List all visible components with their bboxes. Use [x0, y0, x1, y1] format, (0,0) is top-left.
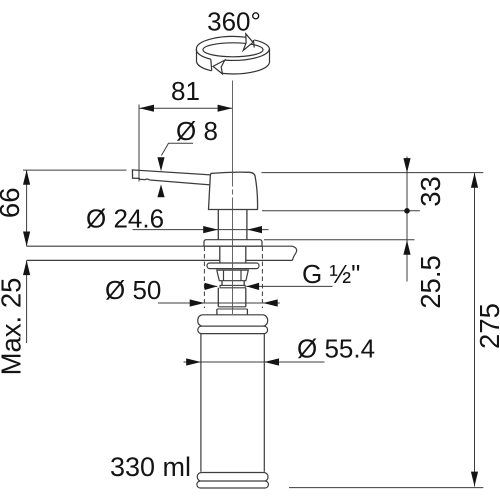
right reference lines — [262, 172, 484, 174]
dim 81: line + outward arrows — [139, 105, 232, 182]
dashed projection lines of flange dia 50 — [204, 247, 262, 309]
81 extension through spout — [138, 170, 140, 181]
svg-text:Ø 8: Ø 8 — [176, 116, 218, 146]
svg-text:81: 81 — [171, 76, 200, 106]
countertop lines with right break — [27, 245, 293, 247]
dim 25.5 arrow — [403, 240, 410, 255]
svg-text:275: 275 — [474, 303, 500, 349]
thread stubs — [222, 281, 244, 286]
svg-text:25.5: 25.5 — [415, 255, 446, 309]
svg-text:330 ml: 330 ml — [110, 452, 191, 482]
bottle body — [201, 334, 264, 472]
dim Max. 25 — [26, 260, 28, 343]
svg-text:Max. 25: Max. 25 — [0, 278, 27, 376]
svg-text:360°: 360° — [207, 7, 261, 37]
svg-text:G ½": G ½" — [302, 259, 360, 289]
dim 275 — [474, 173, 476, 487]
svg-text:66: 66 — [0, 188, 25, 219]
flange on counter — [204, 240, 262, 247]
dim 33 with dot — [406, 157, 408, 282]
bottle neck rings — [198, 315, 268, 326]
tube through counter — [220, 246, 246, 263]
svg-text:Ø 50: Ø 50 — [105, 275, 161, 305]
centerline — [232, 81, 234, 315]
head of dispenser — [209, 172, 258, 209]
lower tube to bottle — [218, 288, 246, 307]
svg-text:Ø 24.6: Ø 24.6 — [86, 204, 164, 234]
baseline bottom right — [289, 487, 483, 489]
bottle bottom rings — [197, 473, 268, 482]
svg-text:33: 33 — [415, 176, 446, 207]
svg-text:Ø 55.4: Ø 55.4 — [297, 334, 375, 364]
360 degree rotation ring — [196, 34, 269, 74]
nut — [217, 270, 249, 281]
shaft below head — [218, 210, 247, 240]
dim 66: top extension + line + arrows — [23, 169, 127, 171]
G half collar — [220, 285, 245, 287]
washer under counter — [207, 263, 259, 269]
spout arm — [132, 170, 212, 185]
